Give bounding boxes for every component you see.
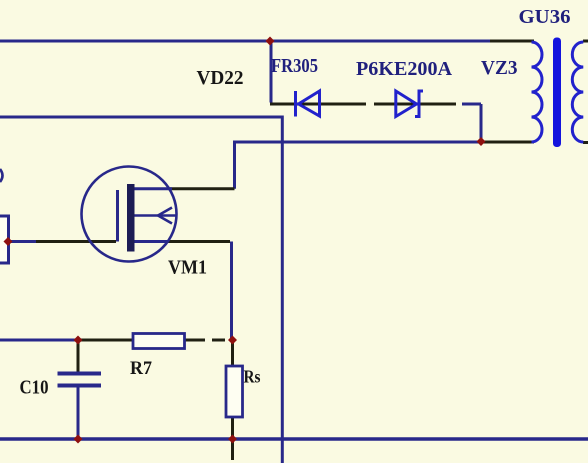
svg-text:R7: R7 <box>130 358 152 379</box>
svg-text:GU36: GU36 <box>519 6 571 28</box>
svg-text:FR305: FR305 <box>271 55 318 77</box>
svg-text:VM1: VM1 <box>168 257 207 279</box>
svg-text:C10: C10 <box>20 377 49 399</box>
svg-text:Rs: Rs <box>244 367 261 387</box>
svg-text:P6KE200A: P6KE200A <box>356 58 453 80</box>
svg-text:VD22: VD22 <box>197 67 244 89</box>
svg-text:VZ3: VZ3 <box>481 57 518 79</box>
